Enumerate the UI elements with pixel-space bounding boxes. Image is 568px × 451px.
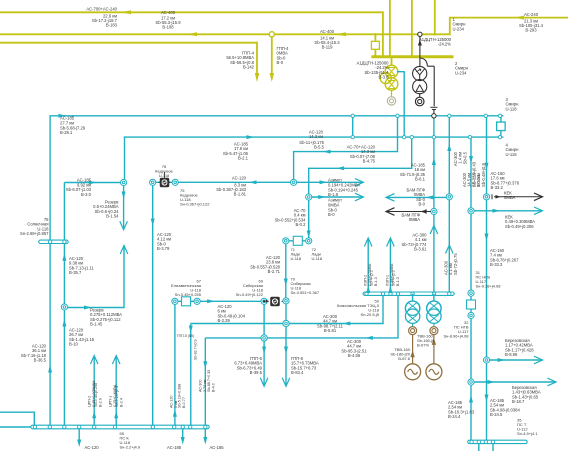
svg-text:АС-3002.73 км: АС-3002.73 км xyxy=(199,379,207,392)
svg-text:Sb-82.7+j0.9: Sb-82.7+j0.9 xyxy=(194,340,198,360)
svg-text:АС-30044.7 км: АС-30044.7 км xyxy=(323,314,338,324)
svg-text:АС-240: АС-240 xyxy=(524,12,539,17)
svg-text:АС-400: АС-400 xyxy=(161,10,176,15)
svg-text:АС-120: АС-120 xyxy=(85,445,100,450)
svg-text:АС-3001.4 кмSb-0.5: АС-3001.4 кмSb-0.5 xyxy=(453,151,467,166)
svg-text:АС-400: АС-400 xyxy=(320,29,335,34)
svg-text:АС-185: АС-185 xyxy=(167,445,182,450)
svg-text:АС-12014.3 км: АС-12014.3 км xyxy=(309,130,324,140)
svg-text:АС-700+АС-240: АС-700+АС-240 xyxy=(86,6,117,11)
svg-text:АС-120: АС-120 xyxy=(232,176,247,181)
svg-text:АС-185: АС-185 xyxy=(210,445,225,450)
svg-text:ГПП-5 (85): ГПП-5 (85) xyxy=(177,334,194,338)
